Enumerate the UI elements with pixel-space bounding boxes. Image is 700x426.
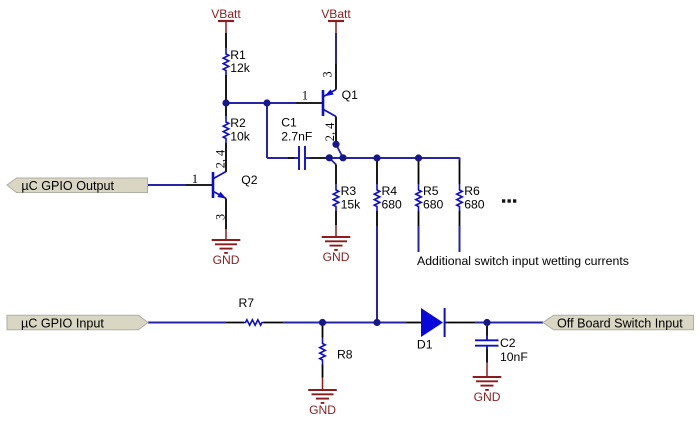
svg-text:GND: GND [213,253,240,267]
svg-text:2.7nF: 2.7nF [281,129,312,143]
svg-text:µC GPIO Output: µC GPIO Output [21,179,114,193]
svg-text:R3: R3 [341,184,357,198]
svg-text:R1: R1 [230,48,246,62]
svg-text:µC GPIO Input: µC GPIO Input [21,316,104,330]
svg-text:Additional switch input wettin: Additional switch input wetting currents [417,254,629,268]
svg-text:R6: R6 [464,184,480,198]
svg-text:2, 4: 2, 4 [323,123,337,141]
svg-text:R2: R2 [230,116,246,130]
svg-text:C1: C1 [281,116,297,130]
svg-text:15k: 15k [341,197,362,211]
svg-text:10k: 10k [230,129,251,143]
svg-text:R8: R8 [337,348,353,362]
svg-text:Q2: Q2 [241,173,257,187]
svg-text:VBatt: VBatt [211,7,241,21]
svg-text:R5: R5 [423,184,439,198]
svg-text:R7: R7 [239,296,255,310]
svg-text:12k: 12k [230,61,251,75]
svg-text:680: 680 [423,197,444,211]
svg-text:10nF: 10nF [500,350,528,364]
svg-text:3: 3 [321,71,335,77]
svg-text:VBatt: VBatt [321,7,351,21]
svg-text:D1: D1 [417,337,433,351]
svg-text:680: 680 [382,197,403,211]
svg-text:2, 4: 2, 4 [214,150,228,168]
svg-text:3: 3 [214,214,228,220]
svg-text:1: 1 [302,89,308,103]
svg-text:C2: C2 [500,336,516,350]
svg-text:GND: GND [309,403,336,417]
svg-text:680: 680 [464,197,485,211]
svg-text:GND: GND [323,250,350,264]
svg-text:Off Board Switch Input: Off Board Switch Input [557,316,683,330]
svg-text:R4: R4 [382,184,398,198]
svg-text:Q1: Q1 [342,88,358,102]
svg-text:1: 1 [192,172,198,186]
svg-text:GND: GND [474,390,501,404]
